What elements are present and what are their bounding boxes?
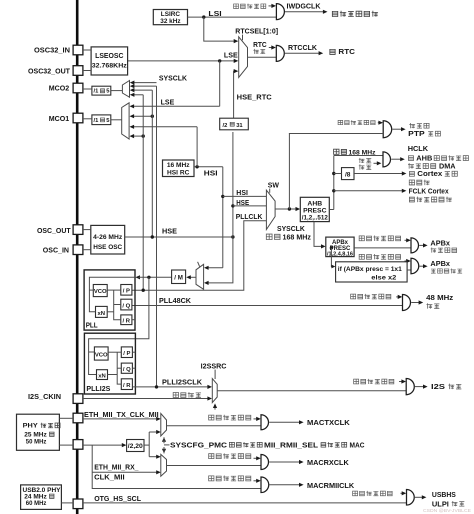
svg-text:PLL48CK: PLL48CK	[159, 296, 192, 305]
svg-text:LSE: LSE	[224, 51, 238, 60]
svg-text:IWDGCLK: IWDGCLK	[287, 1, 322, 10]
svg-text:RTC: RTC	[253, 40, 267, 49]
svg-text:OSC32_OUT: OSC32_OUT	[28, 66, 71, 75]
svg-text:LSEOSC: LSEOSC	[95, 53, 123, 60]
svg-text:LSE: LSE	[161, 98, 175, 107]
svg-text:/ M: / M	[174, 275, 183, 282]
svg-text:USBHS: USBHS	[432, 490, 456, 499]
svg-text:/2: /2	[223, 123, 228, 129]
svg-text:ETH_MII_RX_: ETH_MII_RX_	[94, 462, 139, 471]
svg-text:I2SSRC: I2SSRC	[201, 361, 228, 370]
svg-text:/ R: / R	[123, 383, 131, 389]
svg-text:FCLK Cortex: FCLK Cortex	[409, 186, 450, 195]
svg-text:HSI: HSI	[204, 168, 218, 177]
svg-text:168 MHz: 168 MHz	[283, 233, 312, 242]
svg-text:VCO: VCO	[95, 352, 108, 358]
svg-text:LSI: LSI	[208, 9, 221, 18]
svg-text:AHB: AHB	[416, 153, 432, 162]
svg-text:/ Q: / Q	[123, 367, 131, 373]
svg-text:APBx: APBx	[430, 238, 450, 247]
svg-text:PLLI2S: PLLI2S	[86, 384, 110, 393]
svg-text:MACTXCLK: MACTXCLK	[307, 418, 350, 427]
svg-text:/ P: / P	[123, 351, 130, 357]
svg-text:else x2: else x2	[371, 275, 397, 282]
svg-text:VCO: VCO	[94, 289, 107, 295]
svg-text:PRESC: PRESC	[303, 208, 327, 215]
svg-text:/ R: / R	[123, 319, 131, 325]
svg-text:if (APBx presc = 1x1: if (APBx presc = 1x1	[338, 266, 403, 273]
svg-text:MII_RMII_SEL: MII_RMII_SEL	[264, 441, 319, 450]
svg-text:RTCCLK: RTCCLK	[288, 43, 318, 52]
svg-text:MACRXCLK: MACRXCLK	[307, 458, 349, 467]
svg-text:Cortex: Cortex	[417, 169, 442, 178]
svg-text:HSE_RTC: HSE_RTC	[237, 93, 273, 102]
svg-text:RTC: RTC	[338, 47, 355, 56]
svg-text:32.768KHz: 32.768KHz	[92, 63, 128, 70]
svg-text:SYSCLK: SYSCLK	[277, 224, 305, 233]
svg-text:60 MHz: 60 MHz	[26, 500, 47, 507]
svg-text:OSC_OUT: OSC_OUT	[37, 226, 71, 235]
svg-text:CSDN @BV-JVBLCE: CSDN @BV-JVBLCE	[423, 508, 471, 513]
svg-text:APBx: APBx	[430, 259, 450, 268]
svg-text:OTG_HS_SCL: OTG_HS_SCL	[94, 494, 141, 503]
svg-text:AHB: AHB	[307, 200, 322, 207]
svg-text:HSE: HSE	[236, 198, 249, 207]
svg-text:MCO1: MCO1	[49, 114, 70, 123]
svg-text:SYSCLK: SYSCLK	[159, 74, 188, 83]
svg-text:I2S: I2S	[431, 382, 445, 391]
svg-text:HSE OSC: HSE OSC	[93, 244, 122, 251]
svg-text:168 MHz: 168 MHz	[349, 149, 377, 156]
svg-text:HSI: HSI	[236, 188, 248, 197]
svg-text:PHY: PHY	[23, 423, 39, 430]
svg-text:MACRMIICLK: MACRMIICLK	[307, 481, 355, 490]
svg-text:PLL: PLL	[86, 321, 99, 330]
svg-text:MAC: MAC	[350, 441, 366, 450]
svg-text:48 MHz: 48 MHz	[426, 293, 453, 302]
svg-text:OSC_IN: OSC_IN	[43, 246, 69, 255]
svg-text:CLK_MII: CLK_MII	[94, 473, 124, 482]
svg-text:ETH_MII_TX_CLK_MII: ETH_MII_TX_CLK_MII	[84, 410, 159, 419]
svg-text:OSC32_IN: OSC32_IN	[34, 46, 70, 55]
svg-text:PTP: PTP	[408, 129, 425, 138]
svg-text:/1: /1	[94, 118, 100, 124]
svg-text:xN: xN	[98, 311, 106, 317]
svg-text:32 kHz: 32 kHz	[160, 18, 180, 25]
svg-text:PLLI2SCLK: PLLI2SCLK	[162, 377, 203, 386]
svg-text:25 MHz: 25 MHz	[24, 431, 47, 438]
svg-text:HSE: HSE	[162, 227, 177, 236]
svg-text:50 MHz: 50 MHz	[26, 439, 47, 446]
svg-text:PLLCLK: PLLCLK	[236, 212, 263, 221]
svg-text:RTCSEL[1:0]: RTCSEL[1:0]	[235, 27, 278, 36]
svg-text:MCO2: MCO2	[49, 84, 70, 93]
svg-text:/8: /8	[345, 172, 351, 179]
svg-text:HSI RC: HSI RC	[167, 169, 190, 176]
svg-text:/1: /1	[94, 89, 100, 95]
svg-text:/ P: / P	[123, 289, 130, 295]
svg-text:/1,2,..512: /1,2,..512	[302, 215, 329, 221]
svg-text:APBx: APBx	[332, 240, 349, 246]
svg-text:xN: xN	[98, 373, 106, 379]
svg-text:16 MHz: 16 MHz	[167, 162, 190, 169]
svg-text:31: 31	[236, 123, 243, 129]
svg-text:/ Q: / Q	[122, 303, 130, 309]
svg-text:SW: SW	[268, 181, 279, 190]
svg-text:/2,20: /2,20	[128, 443, 144, 450]
svg-text:SYSCFG_PMC: SYSCFG_PMC	[170, 441, 228, 450]
svg-text:HCLK: HCLK	[408, 144, 429, 153]
svg-text:4-26 MHz: 4-26 MHz	[93, 234, 123, 241]
svg-text:I2S_CKIN: I2S_CKIN	[28, 392, 61, 401]
